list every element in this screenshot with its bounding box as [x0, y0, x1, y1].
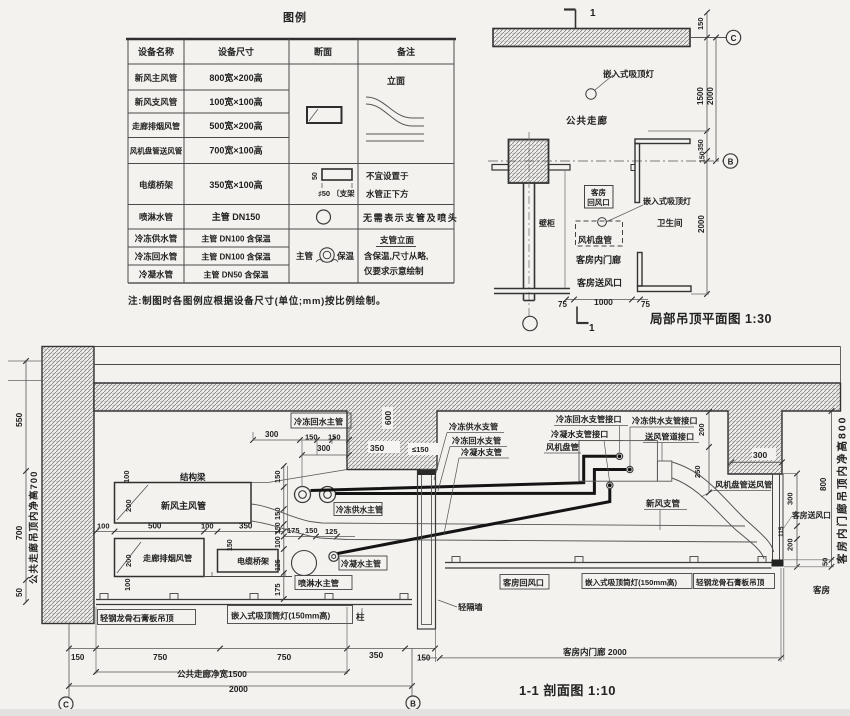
svg-text:冷冻回水管: 冷冻回水管: [135, 252, 178, 262]
svg-text:350宽×100高: 350宽×100高: [209, 179, 262, 190]
svg-text:无需表示支管及喷头: 无需表示支管及喷头: [362, 212, 458, 223]
section top dims 300 150 150: [253, 439, 349, 441]
section condensate main pipe: [329, 552, 339, 562]
plan grid line B dashed: [488, 160, 723, 162]
svg-text:700宽×100高: 700宽×100高: [209, 145, 262, 156]
svg-text:750: 750: [153, 652, 167, 662]
svg-text:150: 150: [305, 433, 318, 442]
section condensate label boxed: [339, 556, 387, 570]
section gypsum ceiling label left boxed: [98, 610, 196, 625]
section supply duct connector box: [657, 461, 671, 481]
plan bathroom wall top bar: [635, 139, 690, 144]
svg-text:冷冻供水支管接口: 冷冻供水支管接口: [632, 416, 698, 426]
svg-text:客房回风口: 客房回风口: [502, 578, 544, 588]
plan right dim chain: [706, 12, 708, 294]
section cable tray: [218, 550, 279, 573]
section mid dim row 100 500 100 350: [96, 531, 284, 533]
svg-text:B: B: [410, 700, 416, 709]
svg-text:750: 750: [277, 652, 291, 662]
svg-text:175: 175: [273, 583, 282, 596]
svg-text:C: C: [63, 701, 69, 710]
svg-text:300: 300: [786, 492, 795, 505]
svg-text:100: 100: [97, 522, 110, 531]
svg-text:喷淋水管: 喷淋水管: [139, 212, 174, 222]
svg-text:冷凝水支管接口: 冷凝水支管接口: [551, 429, 608, 439]
plan section cut mark 1 bottom: [576, 307, 578, 325]
section chilled return main pipe: [295, 487, 311, 503]
plan bathroom wall left lower + bottom bar: [638, 253, 643, 287]
svg-text:轻钢龙骨石膏板吊顶: 轻钢龙骨石膏板吊顶: [100, 613, 175, 623]
svg-text:100: 100: [123, 578, 132, 591]
svg-text:500宽×200高: 500宽×200高: [209, 120, 262, 131]
svg-text:150: 150: [700, 151, 707, 163]
svg-text:300: 300: [753, 450, 767, 460]
section ext lines for width dim: [95, 607, 97, 674]
svg-text:风机盘管送风管: 风机盘管送风管: [715, 480, 772, 490]
svg-text:客房: 客房: [812, 585, 830, 595]
svg-text:嵌入式吸顶灯: 嵌入式吸顶灯: [603, 69, 655, 79]
section porch ceiling lights: [452, 557, 460, 563]
plan extension lines right: [648, 130, 709, 132]
section dim labels on beam step: [368, 441, 400, 453]
svg-text:100: 100: [275, 536, 282, 548]
svg-text:150: 150: [696, 17, 705, 30]
plan grid line C: [690, 37, 726, 39]
section chilled water return label boxed: [291, 413, 351, 428]
section smoke exhaust duct: [115, 539, 205, 577]
section dim 300 lower: [302, 454, 349, 456]
section chilled supply main pipe: [320, 487, 336, 503]
section porch ceiling: [445, 562, 772, 564]
svg-text:断面: 断面: [314, 46, 332, 57]
plan guest room return air label boxed: [585, 186, 614, 209]
section floor slab hatched with steps: [94, 383, 841, 474]
svg-text:150: 150: [227, 539, 234, 551]
svg-text:客房内门廊: 客房内门廊: [575, 254, 621, 265]
svg-text:冷冻供水管: 冷冻供水管: [135, 234, 178, 244]
section left extension lines: [8, 360, 42, 362]
svg-text:1: 1: [589, 323, 595, 334]
section thick pipe A chilled return to fan coil: [311, 456, 617, 490]
legend duct section symbol: [307, 107, 342, 123]
svg-text:2000: 2000: [697, 215, 706, 233]
legend table frame: [126, 38, 456, 40]
section cable tray support: [205, 576, 292, 578]
svg-text:风机盘管送风管: 风机盘管送风管: [130, 146, 183, 156]
plan top beam hatched: [493, 29, 690, 47]
svg-text:新风主风管: 新风主风管: [135, 73, 178, 83]
plan grid bubble B: [723, 154, 737, 168]
svg-text:冷冻供水支管: 冷冻供水支管: [449, 422, 498, 432]
svg-text:150: 150: [328, 433, 341, 442]
svg-text:风机盘管: 风机盘管: [546, 442, 579, 452]
plan bottom dims 75 1000 75: [566, 299, 648, 301]
svg-text:1000: 1000: [594, 297, 613, 307]
svg-text:100宽×100高: 100宽×100高: [209, 96, 262, 107]
section grid bubble C bottom: [59, 697, 73, 711]
section porch dim 150 and 2000: [421, 657, 437, 659]
svg-text:水管正下方: 水管正下方: [365, 189, 409, 199]
section partition wall (column) hollow: [418, 470, 436, 629]
section right dim chain x797: [796, 474, 798, 567]
section corridor ceiling: [96, 599, 412, 601]
section floor lines above slab: [94, 346, 841, 348]
svg-text:700: 700: [14, 526, 24, 540]
svg-text:客房送风口: 客房送风口: [792, 510, 831, 520]
svg-text:B: B: [728, 158, 734, 167]
svg-text:设备尺寸: 设备尺寸: [218, 46, 254, 57]
svg-text:C: C: [731, 34, 737, 43]
svg-text:嵌入式吸顶筒灯(150mm高): 嵌入式吸顶筒灯(150mm高): [231, 611, 330, 621]
svg-text:冷冻回水支管接口: 冷冻回水支管接口: [556, 414, 622, 424]
svg-text:2000: 2000: [229, 684, 248, 694]
svg-text:200: 200: [786, 538, 795, 551]
section chilled supply label boxed: [334, 503, 382, 516]
svg-text:电缆桥架: 电缆桥架: [237, 556, 269, 566]
svg-text:风机盘管: 风机盘管: [578, 235, 613, 245]
svg-text:150: 150: [273, 470, 282, 483]
svg-text:新风支风管: 新风支风管: [135, 97, 178, 107]
svg-text:公共走廊吊顶内净高700: 公共走廊吊顶内净高700: [28, 471, 40, 584]
svg-text:备注: 备注: [396, 46, 415, 57]
svg-text:柱: 柱: [356, 612, 365, 622]
svg-text:1: 1: [590, 8, 596, 19]
svg-text:壁柜: 壁柜: [539, 218, 555, 228]
svg-text:2000: 2000: [706, 87, 715, 105]
svg-text:局部吊顶平面图 1:30: 局部吊顶平面图 1:30: [650, 311, 772, 326]
svg-text:客房内门廊 2000: 客房内门廊 2000: [562, 647, 627, 657]
svg-text:1-1 剖面图 1:10: 1-1 剖面图 1:10: [519, 683, 616, 698]
section supply outlet grille black: [772, 560, 784, 567]
svg-text:冷凝水主管: 冷凝水主管: [341, 559, 381, 569]
svg-text:轻隔墙: 轻隔墙: [458, 602, 483, 612]
svg-text:图例: 图例: [283, 10, 307, 24]
section gypsum ceiling label right boxed: [694, 574, 775, 589]
svg-text:保温: 保温: [336, 251, 355, 261]
svg-text:客房送风口: 客房送风口: [576, 277, 622, 288]
svg-text:600: 600: [383, 411, 393, 425]
plan column hatched: [509, 140, 549, 184]
section corridor width dim: [96, 671, 347, 673]
svg-text:50: 50: [821, 558, 830, 566]
svg-text:主管 DN100 含保温: 主管 DN100 含保温: [201, 252, 270, 262]
section grid bubble B bottom: [411, 649, 413, 697]
svg-text:走廊排烟风管: 走廊排烟风管: [131, 121, 180, 131]
plan bathroom wall left upper: [635, 144, 640, 203]
svg-text:150: 150: [71, 653, 85, 662]
svg-text:送风管道接口: 送风管道接口: [644, 432, 694, 442]
section bottom dim chain corridor: [68, 624, 70, 698]
section downlight label left boxed: [228, 606, 353, 624]
svg-text:350: 350: [239, 522, 253, 531]
plan grid bubble bottom (unlabeled): [523, 316, 537, 330]
svg-text:公共走廊: 公共走廊: [566, 115, 608, 127]
svg-text:125: 125: [325, 527, 338, 536]
svg-text:新风主风管: 新风主风管: [161, 500, 206, 511]
plan inner door line: [564, 170, 566, 288]
svg-text:电缆桥架: 电缆桥架: [139, 180, 174, 190]
svg-text:500: 500: [148, 522, 162, 531]
section thick pipe B chilled supply to fan coil: [336, 470, 627, 494]
section right dim 800: [831, 411, 833, 567]
section right ext lines: [784, 559, 834, 561]
svg-text:50: 50: [15, 588, 24, 597]
section fresh air main duct: [115, 483, 252, 524]
svg-text:200: 200: [124, 554, 133, 567]
svg-text:1500: 1500: [696, 87, 705, 105]
plan grid bubble C: [726, 30, 740, 44]
section supply outlet duct vertical: [772, 474, 774, 560]
section corridor ceiling lights: [100, 594, 108, 600]
legend sprinkler circle symbol: [317, 210, 331, 224]
section 2000 dim: [69, 685, 412, 687]
svg-text:注:制图时各图例应根据设备尺寸(单位;mm)按比例绘制。: 注:制图时各图例应根据设备尺寸(单位;mm)按比例绘制。: [128, 295, 386, 307]
svg-text:800宽×200高: 800宽×200高: [209, 72, 262, 83]
section sprinkler label boxed: [295, 576, 352, 590]
plan wall stub right of column: [549, 165, 571, 171]
section dim row 175 150 125: [284, 536, 355, 538]
svg-text:冷冻供水主管: 冷冻供水主管: [336, 505, 383, 515]
svg-text:卫生间: 卫生间: [657, 218, 683, 228]
section dim 300 in step block: [731, 461, 782, 463]
svg-text:客房: 客房: [590, 187, 606, 197]
svg-text:嵌入式吸顶筒灯(150mm高): 嵌入式吸顶筒灯(150mm高): [585, 577, 677, 587]
svg-text:≤150: ≤150: [412, 445, 429, 454]
section fresh air branch S-curve from main duct: [251, 504, 745, 526]
svg-text:100: 100: [122, 470, 131, 483]
svg-text:主管 DN100 含保温: 主管 DN100 含保温: [201, 234, 270, 244]
section sprinkler main pipe circle: [292, 551, 317, 576]
svg-text:走廊排烟风管: 走廊排烟风管: [142, 553, 192, 563]
svg-text:支管立面: 支管立面: [379, 235, 415, 245]
plan column center line dashed: [528, 132, 530, 318]
svg-text:200: 200: [697, 423, 706, 436]
plan fan coil dashed box: [576, 221, 623, 246]
svg-text:250: 250: [693, 465, 702, 478]
section fan coil supply S-curves to outlet: [672, 462, 774, 552]
section dim chain x709 200 250: [708, 412, 710, 493]
svg-text:冷凝水管: 冷凝水管: [139, 270, 174, 280]
svg-text:50: 50: [312, 172, 319, 180]
svg-text:结构梁: 结构梁: [180, 472, 206, 482]
svg-text:350: 350: [369, 650, 383, 660]
svg-text:客房内门廊吊顶内净高800: 客房内门廊吊顶内净高800: [836, 415, 849, 565]
svg-text:150: 150: [305, 526, 318, 535]
svg-text:仅要求示意绘制: 仅要求示意绘制: [363, 266, 424, 276]
svg-text:主管 DN50 含保温: 主管 DN50 含保温: [204, 270, 269, 280]
section fan coil unit box: [579, 441, 657, 482]
svg-text:冷冻回水支管: 冷冻回水支管: [452, 436, 501, 446]
svg-text:♯50 〔支架: ♯50 〔支架: [318, 188, 355, 198]
svg-text:设备名称: 设备名称: [138, 46, 174, 57]
section return air label boxed right: [500, 575, 549, 590]
svg-text:75: 75: [641, 300, 650, 309]
svg-text:主管 DN150: 主管 DN150: [212, 211, 261, 222]
svg-text:不宜设置于: 不宜设置于: [366, 171, 409, 181]
svg-text:嵌入式吸顶灯: 嵌入式吸顶灯: [643, 196, 691, 206]
svg-text:冷冻回水主管: 冷冻回水主管: [294, 417, 343, 427]
plan bottom wall tee: [494, 288, 570, 290]
svg-text:回风口: 回风口: [587, 198, 610, 207]
bottom scan strip: [0, 709, 850, 716]
section vertical dim chain at x284: [283, 466, 285, 599]
svg-text:350: 350: [370, 443, 384, 453]
svg-text:550: 550: [14, 413, 24, 427]
svg-text:喷淋水主管: 喷淋水主管: [298, 578, 339, 588]
section downlight label right boxed: [582, 574, 692, 589]
svg-text:轻钢龙骨石膏板吊顶: 轻钢龙骨石膏板吊顶: [696, 577, 765, 587]
svg-text:冷凝水支管: 冷凝水支管: [461, 447, 502, 457]
svg-text:立面: 立面: [387, 75, 405, 86]
svg-text:200: 200: [124, 499, 133, 512]
plan wall stub left of column: [492, 165, 509, 171]
svg-text:主管: 主管: [296, 251, 314, 261]
section left dim chain 550 700 50: [25, 361, 27, 602]
section left wall hatched: [42, 347, 94, 624]
svg-text:含保温,尺寸从略,: 含保温,尺寸从略,: [363, 251, 428, 261]
svg-text:公共走廊净宽1500: 公共走廊净宽1500: [177, 669, 247, 679]
svg-text:125: 125: [275, 559, 282, 571]
plan wall below column: [523, 183, 525, 289]
svg-text:新风支管: 新风支管: [646, 499, 681, 509]
svg-text:75: 75: [558, 300, 567, 309]
svg-text:100: 100: [201, 522, 214, 531]
section thick pipe C condensate to fan coil: [338, 489, 610, 554]
plan section cut mark 1 top: [575, 10, 577, 29]
svg-text:300: 300: [317, 444, 331, 453]
svg-text:300: 300: [265, 430, 279, 439]
svg-text:800: 800: [819, 477, 828, 491]
svg-text:350: 350: [698, 139, 705, 151]
section partition top black joints: [418, 470, 436, 475]
plan recessed ceiling light + label: [586, 89, 596, 99]
